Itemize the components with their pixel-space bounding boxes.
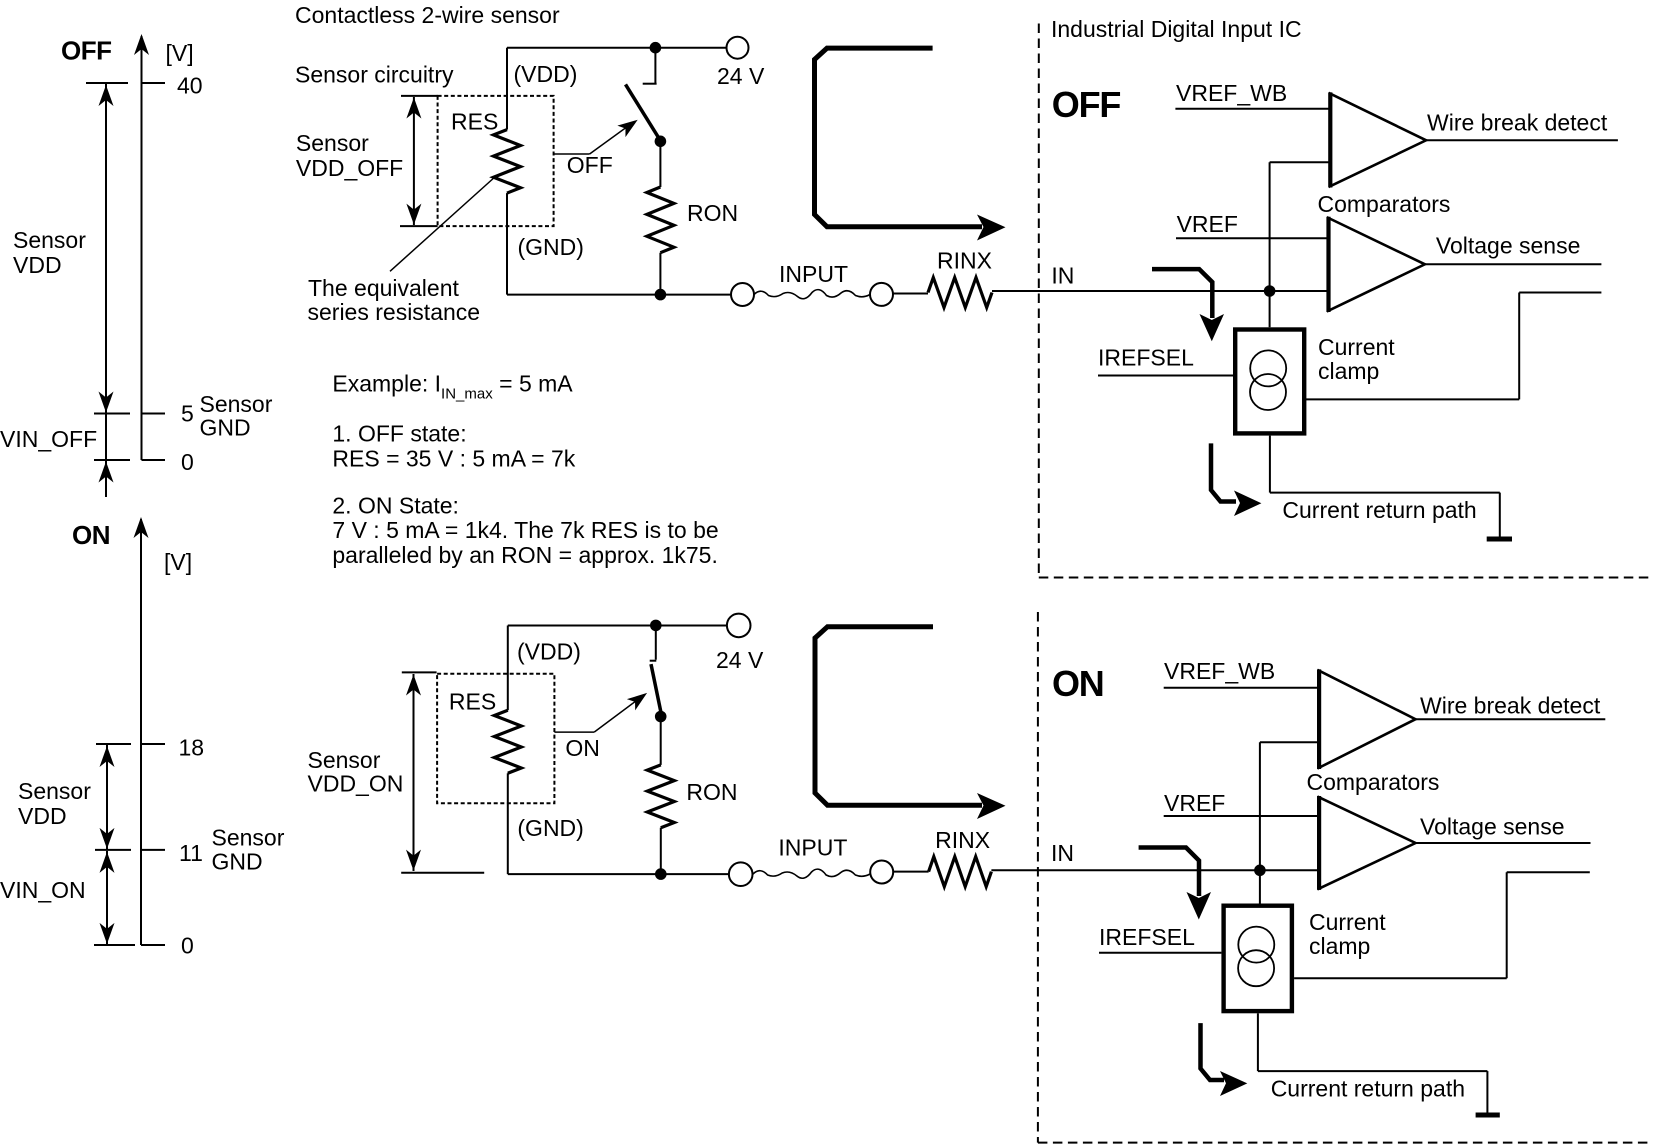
svg-text:Voltage sense: Voltage sense <box>1420 814 1565 840</box>
svg-text:0: 0 <box>181 449 194 475</box>
svg-text:Sensor: Sensor <box>13 227 86 253</box>
svg-text:VREF: VREF <box>1164 790 1225 816</box>
svg-text:IREFSEL: IREFSEL <box>1098 345 1194 371</box>
svg-text:series resistance: series resistance <box>308 299 481 325</box>
svg-text:VDD_ON: VDD_ON <box>308 771 404 797</box>
svg-text:Wire break detect: Wire break detect <box>1420 693 1601 719</box>
svg-text:INPUT: INPUT <box>778 835 847 861</box>
svg-text:IREFSEL: IREFSEL <box>1099 924 1195 950</box>
svg-text:24 V: 24 V <box>716 647 764 673</box>
svg-text:VREF_WB: VREF_WB <box>1164 658 1275 684</box>
svg-text:OFF: OFF <box>567 152 613 178</box>
svg-text:The equivalent: The equivalent <box>308 275 459 301</box>
svg-text:Sensor: Sensor <box>18 778 91 804</box>
svg-text:INPUT: INPUT <box>779 261 848 287</box>
svg-text:Sensor: Sensor <box>200 391 273 417</box>
svg-text:RES: RES <box>451 109 498 135</box>
svg-text:ON: ON <box>565 735 600 761</box>
svg-text:VDD: VDD <box>13 252 62 278</box>
svg-text:VDD: VDD <box>18 803 67 829</box>
svg-text:11: 11 <box>179 840 203 866</box>
svg-text:24 V: 24 V <box>717 63 765 89</box>
svg-text:OFF: OFF <box>61 36 112 66</box>
svg-text:[V]: [V] <box>164 549 192 575</box>
svg-text:RINX: RINX <box>935 827 990 853</box>
svg-text:RINX: RINX <box>937 248 992 274</box>
svg-text:RON: RON <box>687 200 738 226</box>
svg-text:Current return path: Current return path <box>1271 1076 1465 1102</box>
svg-text:IN: IN <box>1051 840 1074 866</box>
svg-text:VIN_OFF: VIN_OFF <box>0 426 97 452</box>
svg-text:ON: ON <box>72 520 110 550</box>
svg-text:GND: GND <box>200 415 251 441</box>
svg-text:Industrial Digital Input IC: Industrial Digital Input IC <box>1051 16 1302 42</box>
svg-text:Sensor: Sensor <box>296 130 369 156</box>
svg-text:Voltage sense: Voltage sense <box>1436 233 1581 259</box>
svg-text:40: 40 <box>177 73 203 99</box>
svg-text:RES: RES <box>449 689 496 715</box>
svg-text:0: 0 <box>181 933 194 959</box>
svg-text:clamp: clamp <box>1318 358 1379 384</box>
svg-text:ON: ON <box>1052 663 1104 704</box>
svg-text:VREF_WB: VREF_WB <box>1176 80 1287 106</box>
svg-text:VDD_OFF: VDD_OFF <box>296 155 403 181</box>
svg-text:(VDD): (VDD) <box>514 61 578 87</box>
svg-text:7 V : 5 mA = 1k4. The 7k RES i: 7 V : 5 mA = 1k4. The 7k RES is to be <box>332 517 718 543</box>
svg-text:(GND): (GND) <box>518 234 584 260</box>
svg-text:RON: RON <box>686 779 737 805</box>
svg-text:(VDD): (VDD) <box>517 639 581 665</box>
svg-text:18: 18 <box>179 735 205 761</box>
svg-text:Sensor: Sensor <box>308 747 381 773</box>
svg-text:VREF: VREF <box>1177 211 1238 237</box>
svg-text:IN: IN <box>1051 263 1074 289</box>
svg-text:2. ON State:: 2. ON State: <box>332 492 459 518</box>
svg-text:OFF: OFF <box>1052 84 1121 125</box>
svg-text:Wire break detect: Wire break detect <box>1427 109 1608 135</box>
svg-text:paralleled by an RON = approx.: paralleled by an RON = approx. 1k75. <box>332 542 717 568</box>
svg-text:Comparators: Comparators <box>1318 191 1451 217</box>
svg-text:VIN_ON: VIN_ON <box>0 877 86 903</box>
svg-text:5: 5 <box>181 401 194 427</box>
svg-text:Current return path: Current return path <box>1282 497 1476 523</box>
svg-text:Comparators: Comparators <box>1307 769 1440 795</box>
svg-text:Sensor: Sensor <box>212 825 285 851</box>
svg-text:[V]: [V] <box>166 40 194 66</box>
svg-text:1. OFF state:: 1. OFF state: <box>332 421 466 447</box>
svg-text:Current: Current <box>1309 909 1386 935</box>
svg-text:GND: GND <box>212 849 263 875</box>
svg-text:Sensor circuitry: Sensor circuitry <box>295 62 454 88</box>
svg-text:RES = 35 V : 5 mA = 7k: RES = 35 V : 5 mA = 7k <box>332 445 575 471</box>
svg-text:Current: Current <box>1318 334 1395 360</box>
svg-text:(GND): (GND) <box>517 815 583 841</box>
svg-text:clamp: clamp <box>1309 933 1370 959</box>
svg-text:Contactless 2-wire sensor: Contactless 2-wire sensor <box>295 2 560 28</box>
